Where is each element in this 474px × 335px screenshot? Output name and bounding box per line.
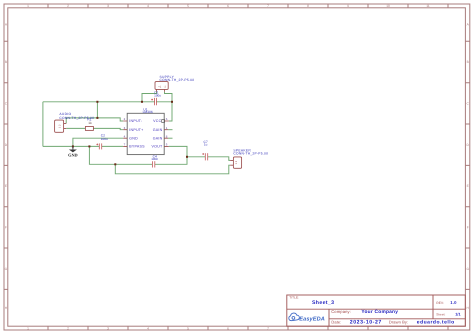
svg-text:2: 2 <box>67 326 69 330</box>
svg-text:1.0: 1.0 <box>450 300 457 305</box>
svg-text:B: B <box>467 60 469 64</box>
svg-text:1 2: 1 2 <box>59 124 62 128</box>
wire supply pin1 down-left to rail <box>142 92 157 102</box>
pin numbers left <box>124 117 126 146</box>
capacitor C4 <box>152 161 154 167</box>
svg-text:GAIN: GAIN <box>153 136 163 140</box>
svg-text:VCC: VCC <box>153 119 161 123</box>
svg-text:GAIN: GAIN <box>153 128 163 132</box>
svg-text:INPUT-: INPUT- <box>129 119 143 123</box>
svg-text:1: 1 <box>27 4 29 8</box>
resistor R1 <box>85 118 93 131</box>
svg-text:CONN-TH_2P-P5.08: CONN-TH_2P-P5.08 <box>160 78 195 82</box>
wire C1 rail segment <box>142 101 172 103</box>
node C2 / rail A drop <box>88 145 90 147</box>
pin names <box>129 119 145 148</box>
node VOUT / C4 / C7 <box>186 156 188 158</box>
wire bottom rail B to speaker pin2 <box>115 164 230 174</box>
svg-text:Date:: Date: <box>331 319 341 324</box>
svg-text:GND: GND <box>129 136 138 140</box>
svg-text:5: 5 <box>187 326 189 330</box>
pin decoration square at VCC <box>162 120 165 123</box>
wire GAIN pin1 stub <box>168 129 173 131</box>
svg-text:1 2: 1 2 <box>235 160 238 164</box>
node supply left / rail <box>141 101 143 103</box>
svg-text:11: 11 <box>426 4 430 8</box>
svg-text:4: 4 <box>147 326 149 330</box>
svg-text:F: F <box>467 226 469 230</box>
svg-text:BYPASS: BYPASS <box>129 145 145 149</box>
svg-text:2: 2 <box>67 4 69 8</box>
left ticks <box>4 41 8 289</box>
svg-text:1: 1 <box>27 326 29 330</box>
svg-text:100n: 100n <box>151 157 158 161</box>
wire ground rail to BYPASS <box>43 145 123 147</box>
ground <box>68 146 78 157</box>
svg-text:9: 9 <box>347 4 349 8</box>
node supply right / VCC <box>171 101 173 103</box>
svg-text:7: 7 <box>267 326 269 330</box>
top ticks <box>48 4 448 8</box>
svg-text:GND: GND <box>68 153 78 158</box>
svg-text:REV:: REV: <box>436 301 444 305</box>
op-amp U1 LM386 <box>123 108 169 155</box>
svg-text:INPUT+: INPUT+ <box>129 128 143 132</box>
svg-text:Company:: Company: <box>331 309 351 314</box>
svg-text:5: 5 <box>187 4 189 8</box>
node top rail / input column <box>96 101 98 103</box>
svg-text:4: 4 <box>147 4 149 8</box>
pin stubs left <box>123 121 127 146</box>
svg-text:Your Company: Your Company <box>361 309 398 315</box>
wire audio pin1 to INPUT- <box>66 118 123 124</box>
svg-text:EasyEDA: EasyEDA <box>299 317 325 323</box>
svg-text:3: 3 <box>107 4 109 8</box>
wire GAIN pin8 stub <box>168 137 173 139</box>
wire GND pin4 branch <box>73 138 123 146</box>
connector J3 SPEAKER <box>230 148 268 168</box>
svg-text:E: E <box>467 184 469 188</box>
wire left vertical rail <box>42 102 44 147</box>
pin stubs right <box>164 121 169 146</box>
bottom ticks <box>48 326 448 330</box>
capacitor C2 <box>96 143 101 149</box>
svg-text:8: 8 <box>307 4 309 8</box>
wire audio pin2 through R1 to INPUT+ <box>66 128 123 129</box>
wire bottom rail A with C4 <box>89 146 187 164</box>
svg-text:1/1: 1/1 <box>455 312 461 316</box>
svg-text:10: 10 <box>386 4 390 8</box>
svg-text:3: 3 <box>107 326 109 330</box>
svg-text:LM386: LM386 <box>143 110 153 114</box>
svg-text:E: E <box>5 184 7 188</box>
capacitor C1 <box>151 98 156 105</box>
pin numbers right <box>166 117 168 146</box>
capacitor C7 <box>202 153 207 160</box>
node audio pin1 / INPUT- <box>96 117 98 119</box>
svg-text:2023-10-27: 2023-10-27 <box>350 320 382 326</box>
svg-text:1u: 1u <box>204 143 208 147</box>
svg-text:1k: 1k <box>88 121 92 125</box>
svg-text:7: 7 <box>267 4 269 8</box>
svg-text:6: 6 <box>227 4 229 8</box>
svg-text:F: F <box>5 226 7 230</box>
svg-text:TITLE:: TITLE: <box>289 295 299 299</box>
node rail A / rail B drop <box>114 163 116 165</box>
wire VOUT to C7 <box>169 146 206 156</box>
connector J2 SUPPLY <box>155 75 194 92</box>
node gnd symbol junction <box>72 145 74 147</box>
svg-text:100u: 100u <box>101 137 108 141</box>
svg-text:6: 6 <box>227 326 229 330</box>
svg-text:B: B <box>5 60 7 64</box>
title block <box>287 295 466 326</box>
junction dots <box>72 101 188 166</box>
svg-text:Sheet_3: Sheet_3 <box>312 300 334 306</box>
connector J1 AUDIO <box>55 112 95 132</box>
wire node vertical top rail to input net <box>96 102 98 118</box>
right ticks <box>465 41 469 289</box>
wire top supply rail <box>43 101 142 103</box>
wire supply pin2 to VCC <box>165 92 173 121</box>
svg-text:Drawn By:: Drawn By: <box>389 319 408 324</box>
svg-text:eduardo.tello: eduardo.tello <box>417 320 455 326</box>
svg-text:CONN-TH_2P-P5.08: CONN-TH_2P-P5.08 <box>233 152 268 156</box>
svg-text:100u: 100u <box>154 94 161 98</box>
EasyEDA logo <box>289 313 300 321</box>
svg-text:Sheet:: Sheet: <box>436 312 445 316</box>
wire C7 to speaker pin1 <box>208 157 231 161</box>
svg-text:VOUT: VOUT <box>152 145 163 149</box>
